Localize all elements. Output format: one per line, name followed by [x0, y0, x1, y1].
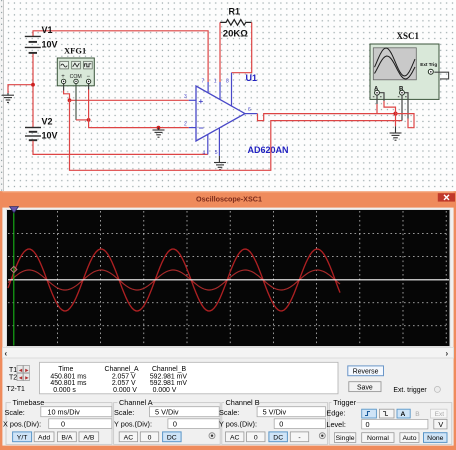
svg-text:10V: 10V: [42, 40, 58, 50]
wire V1 top to pin7: [33, 31, 208, 82]
svg-text:0: 0: [148, 434, 152, 441]
svg-text:Ext: Ext: [435, 411, 445, 418]
svg-text:A: A: [401, 411, 406, 418]
ground GND1 left: [7, 93, 9, 95]
svg-text:U1: U1: [246, 73, 258, 83]
svg-text:0.000 s: 0.000 s: [53, 387, 76, 394]
channel B fields: [219, 407, 326, 429]
wire V2 bottom to pin4: [33, 141, 208, 155]
svg-text:B/A: B/A: [61, 434, 72, 441]
channel A buttons: [119, 432, 215, 442]
svg-text:592.981 mV: 592.981 mV: [150, 380, 188, 387]
svg-text:Single: Single: [336, 435, 355, 442]
svg-text:Auto: Auto: [403, 435, 417, 442]
wire XFG COM down: [75, 84, 77, 120]
svg-text:0.000 V: 0.000 V: [153, 387, 177, 394]
svg-text:Channel B: Channel B: [226, 398, 260, 407]
svg-text:Oscilloscope-XSC1: Oscilloscope-XSC1: [196, 195, 262, 204]
svg-text:5: 5: [215, 150, 218, 156]
wire XFG+ to node A: [63, 84, 65, 91]
svg-text:Level:: Level:: [326, 420, 345, 429]
svg-text:DC: DC: [167, 434, 177, 441]
pin6 output: [245, 113, 258, 115]
svg-text:Scale:: Scale:: [219, 408, 239, 417]
ground GND3 pin5: [218, 156, 220, 163]
svg-text:XSC1: XSC1: [397, 31, 420, 41]
svg-text:Scale:: Scale:: [114, 408, 134, 417]
svg-text:Save: Save: [357, 384, 373, 391]
channel A fields: [114, 407, 219, 429]
cursor marker: [11, 266, 17, 272]
svg-text:◄: ◄: [18, 376, 24, 382]
wire node A to opamp +in: [70, 99, 189, 101]
wire R1 left to pin1: [219, 22, 221, 82]
svg-text:A/B: A/B: [83, 434, 94, 441]
svg-text:Reverse: Reverse: [353, 369, 379, 376]
svg-text:XFG1: XFG1: [64, 46, 86, 56]
pin8: [231, 73, 233, 107]
svg-text:4: 4: [203, 151, 206, 157]
timebase buttons: [13, 432, 99, 442]
node ground junction mid: [157, 126, 161, 130]
Reverse button: [348, 366, 384, 376]
readout panel box: [40, 362, 339, 394]
wire scope B- hook to ground: [405, 93, 409, 119]
svg-text:5 V/Div: 5 V/Div: [155, 407, 179, 416]
op-amp U1 triangle: [196, 86, 245, 141]
trigger fields: [326, 408, 447, 429]
node A junction: [68, 98, 72, 102]
svg-text:V: V: [438, 420, 443, 429]
svg-text:Timebase: Timebase: [13, 398, 45, 407]
svg-text:6: 6: [248, 107, 251, 113]
svg-text:Ext. trigger: Ext. trigger: [393, 387, 427, 394]
svg-text:T2-T1: T2-T1: [7, 386, 26, 393]
svg-text:−: −: [199, 123, 204, 133]
node output-scope junction: [393, 112, 397, 116]
battery V1: [25, 36, 41, 53]
left ruler strip: [3, 0, 5, 191]
svg-text:5 V/Div: 5 V/Div: [263, 407, 287, 416]
svg-text:Normal: Normal: [367, 435, 389, 442]
svg-text:Trigger: Trigger: [333, 398, 356, 407]
svg-text:Ext Trig: Ext Trig: [420, 62, 437, 67]
resistor R1: [220, 20, 252, 26]
Save button: [349, 382, 381, 392]
wire scope B+ stub: [401, 95, 403, 120]
svg-text:R1: R1: [229, 7, 241, 17]
svg-text:Y/T: Y/T: [17, 434, 28, 441]
wire ground-left to link: [8, 85, 33, 94]
svg-text:2.057 V: 2.057 V: [112, 380, 136, 387]
waveform channel B: [8, 270, 340, 290]
svg-text:›: ›: [446, 349, 449, 358]
group boxes: [6, 403, 452, 445]
cursor handle: [10, 207, 19, 213]
svg-text:DC: DC: [273, 434, 283, 441]
node COM-minus junction: [87, 118, 91, 122]
scrollbar: [2, 347, 453, 358]
scope screen: [7, 210, 451, 347]
svg-text:T1: T1: [9, 367, 17, 374]
svg-text:7: 7: [202, 78, 205, 84]
cursor T1: [13, 211, 15, 346]
svg-text:AC: AC: [230, 434, 240, 441]
pin4: [207, 135, 209, 155]
svg-text:10 ms/Div: 10 ms/Div: [47, 407, 80, 416]
svg-text:Add: Add: [38, 434, 50, 441]
svg-text:20KΩ: 20KΩ: [223, 29, 248, 40]
svg-text:Y pos.(Div):: Y pos.(Div):: [219, 420, 257, 429]
svg-text:B: B: [415, 411, 420, 418]
wire output notch: [258, 114, 396, 121]
svg-text:0: 0: [279, 419, 283, 428]
pin5: [218, 128, 220, 156]
channel B buttons: [226, 432, 326, 442]
svg-text:0: 0: [61, 419, 65, 428]
wire V1-V2 link: [32, 53, 34, 127]
svg-text:AC: AC: [124, 434, 134, 441]
T2 arrows: [17, 373, 23, 380]
wire scope A+ down to output net: [376, 95, 378, 104]
svg-text:3: 3: [184, 94, 187, 100]
axis centerline: [8, 279, 449, 281]
wire ext trig stub: [434, 72, 448, 79]
svg-text:0: 0: [173, 419, 177, 428]
svg-text:Y pos.(Div):: Y pos.(Div):: [114, 420, 152, 429]
svg-text:8: 8: [226, 78, 229, 84]
svg-text:0: 0: [366, 420, 370, 429]
pin3 stub: [189, 99, 196, 101]
svg-text:Channel_B: Channel_B: [152, 366, 187, 373]
svg-text:V2: V2: [42, 117, 53, 127]
svg-text:‹: ‹: [5, 349, 8, 358]
wire R1 right to pin8: [232, 22, 252, 72]
close button: [438, 193, 455, 201]
ground GND2 mid: [158, 128, 160, 130]
pin2 stub: [189, 127, 196, 129]
svg-text:Channel_A: Channel_A: [105, 366, 140, 373]
svg-text:Channel A: Channel A: [119, 398, 153, 407]
svg-text:Edge:: Edge:: [326, 408, 345, 417]
trigger buttons: [334, 433, 447, 443]
svg-text:+: +: [199, 97, 204, 106]
group labels: [11, 398, 357, 407]
wire input to scope B: [70, 100, 403, 170]
function generator XFG1: [57, 58, 94, 86]
svg-text:-: -: [298, 434, 300, 441]
svg-text:0: 0: [254, 434, 258, 441]
pin7: [207, 82, 209, 93]
pin1: [219, 82, 221, 100]
readout table: [50, 366, 187, 394]
wire XFG- to opamp -in: [88, 84, 90, 90]
oscilloscope window frame: [0, 191, 456, 450]
battery V2: [25, 128, 41, 141]
svg-text:V1: V1: [42, 25, 53, 35]
schematic background: [0, 0, 456, 192]
svg-text:T2: T2: [9, 375, 17, 382]
svg-text:450.801 ms: 450.801 ms: [50, 380, 87, 387]
svg-text:10V: 10V: [42, 131, 58, 141]
node junction V1V2-ground: [31, 83, 35, 87]
svg-text:►: ►: [24, 376, 30, 382]
svg-text:None: None: [427, 435, 443, 442]
wire scope A- to ground: [380, 93, 385, 101]
svg-text:Scale:: Scale:: [5, 408, 25, 417]
svg-text:2: 2: [184, 121, 187, 127]
waveform channel A: [8, 249, 340, 311]
ground GND4 scope: [395, 126, 397, 133]
T1 arrows: [17, 365, 23, 372]
svg-text:1: 1: [214, 78, 217, 84]
svg-text:AD620AN: AD620AN: [248, 145, 289, 155]
timebase fields: [3, 407, 112, 429]
svg-text:Time: Time: [58, 366, 73, 373]
oscilloscope XSC1 icon: [370, 44, 439, 99]
svg-text:X pos.(Div):: X pos.(Div):: [3, 420, 41, 429]
svg-text:0.000 V: 0.000 V: [113, 387, 137, 394]
